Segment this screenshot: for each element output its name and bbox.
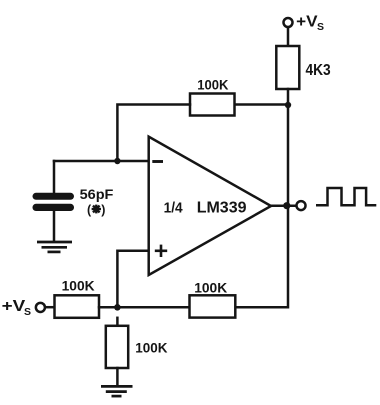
svg-text:100K: 100K: [197, 77, 228, 93]
svg-text:S: S: [24, 306, 31, 318]
svg-text:100K: 100K: [135, 339, 167, 355]
svg-text:100K: 100K: [194, 279, 227, 295]
svg-text:): ): [101, 203, 105, 217]
svg-text:56pF: 56pF: [80, 186, 114, 202]
svg-text:+V: +V: [2, 298, 26, 315]
svg-text:1/4: 1/4: [164, 200, 184, 217]
svg-text:LM339: LM339: [197, 200, 247, 217]
svg-text:S: S: [317, 21, 324, 33]
svg-text:+V: +V: [296, 14, 318, 31]
svg-text:100K: 100K: [62, 278, 95, 294]
svg-text:4K3: 4K3: [306, 62, 331, 79]
